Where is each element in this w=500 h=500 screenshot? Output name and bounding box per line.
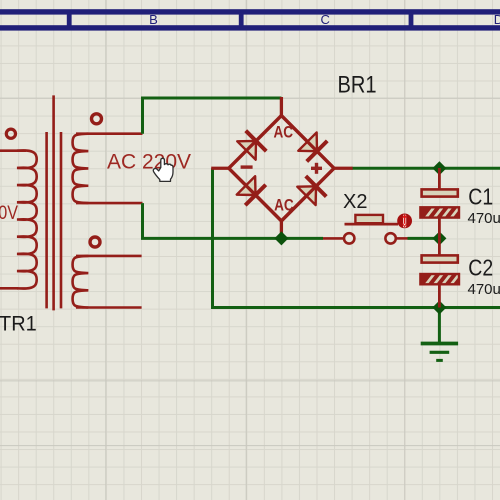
sheet border ruler top band — [0, 9, 500, 30]
secondary bottom winding coil — [73, 256, 89, 308]
wire: top wire from node A to bridge top — [143, 98, 282, 134]
ruler tick 2 — [239, 13, 244, 26]
switch pin left — [323, 237, 344, 240]
wire: switch right pin to C1/C2 node — [408, 237, 440, 240]
secondary top winding pin top — [76, 132, 143, 135]
C2 pin bottom — [438, 284, 441, 307]
switch actuator indicator — [397, 214, 412, 229]
svg-text:470u: 470u — [468, 210, 500, 227]
capacitor C1 — [420, 168, 459, 238]
C1 pin bottom — [438, 218, 441, 239]
secondary top winding coil — [73, 134, 89, 203]
wire: mid wire from secondary bottom pin to switch — [143, 203, 324, 238]
C1 plate top — [422, 189, 458, 196]
wire: ground stem — [438, 308, 441, 344]
wire: bridge right to right edge — [352, 167, 500, 170]
svg-text:230V: 230V — [0, 202, 18, 224]
secondary top winding pin bottom — [76, 202, 143, 205]
bridge pin stub left — [211, 167, 229, 170]
svg-text:X2: X2 — [343, 191, 367, 213]
svg-text:AC: AC — [273, 123, 293, 142]
primary polarity dot — [6, 129, 15, 138]
svg-text:D: D — [494, 12, 500, 27]
primary winding coil — [17, 150, 37, 288]
svg-text:C1: C1 — [468, 183, 493, 210]
switch terminal circle left — [344, 233, 354, 243]
primary winding pin top — [0, 149, 26, 152]
junction node at bottom rail — [432, 301, 446, 315]
secondary top polarity dot — [92, 114, 102, 124]
C2 plate top — [422, 255, 458, 262]
svg-text:AC: AC — [274, 196, 294, 215]
bridge pin stub top — [280, 97, 283, 116]
svg-text:470u: 470u — [468, 281, 500, 298]
C2 plate bottom (hatched) — [420, 273, 459, 285]
switch pin right — [396, 237, 407, 240]
bridge pin stub right — [334, 167, 353, 170]
svg-text:B: B — [149, 12, 158, 27]
secondary bottom winding pin bottom — [76, 306, 142, 309]
core line middle — [52, 95, 55, 310]
primary winding pin bottom — [0, 287, 18, 290]
capacitor C2 — [420, 238, 459, 307]
C1 plate bottom (hatched) — [420, 207, 459, 219]
C1 pin top — [438, 168, 441, 189]
switch contact bar — [345, 223, 399, 226]
junction node at mid rail — [432, 231, 446, 245]
ruler tick 3 — [409, 13, 414, 26]
junction node at C1 top — [432, 161, 446, 175]
secondary bottom polarity dot — [90, 237, 100, 247]
diode D3 (left to bottom) — [236, 175, 266, 205]
diode D2 (top to right) — [297, 131, 327, 161]
secondary bottom winding pin top — [76, 255, 142, 258]
bridge pin label minus — [241, 165, 253, 168]
ground — [421, 344, 458, 361]
bridge pin label plus — [311, 163, 322, 174]
bridge rectifier BR1 — [211, 97, 352, 237]
switch X2 — [323, 214, 412, 244]
bridge edges overlay (redrawn over diode bodies) — [229, 116, 334, 221]
bridge edge bottom-left — [229, 168, 282, 221]
mouse cursor — [153, 158, 173, 181]
diode D4 (bottom to right) — [296, 176, 326, 206]
wire: bridge left to bottom rail — [213, 168, 500, 307]
svg-text:AC 220V: AC 220V — [107, 151, 191, 174]
bridge edge bottom-right — [281, 168, 334, 221]
switch terminal circle right — [385, 233, 395, 243]
core line left — [45, 132, 48, 308]
transformer TR1 — [0, 95, 143, 310]
svg-text:C2: C2 — [468, 254, 493, 281]
switch button body — [355, 215, 383, 223]
svg-text:BR1: BR1 — [338, 70, 377, 97]
svg-text:C: C — [321, 12, 330, 27]
bridge pin stub bottom — [280, 221, 283, 237]
C2 pin top — [438, 238, 441, 254]
svg-text:TR1: TR1 — [0, 312, 37, 336]
bridge edge top-left — [229, 116, 282, 169]
junction node at bridge bottom — [274, 231, 288, 245]
ruler tick 1 — [67, 13, 72, 26]
core line right — [60, 132, 63, 308]
bridge edge top-right — [281, 116, 334, 169]
diode D1 (left to top) — [236, 131, 266, 161]
